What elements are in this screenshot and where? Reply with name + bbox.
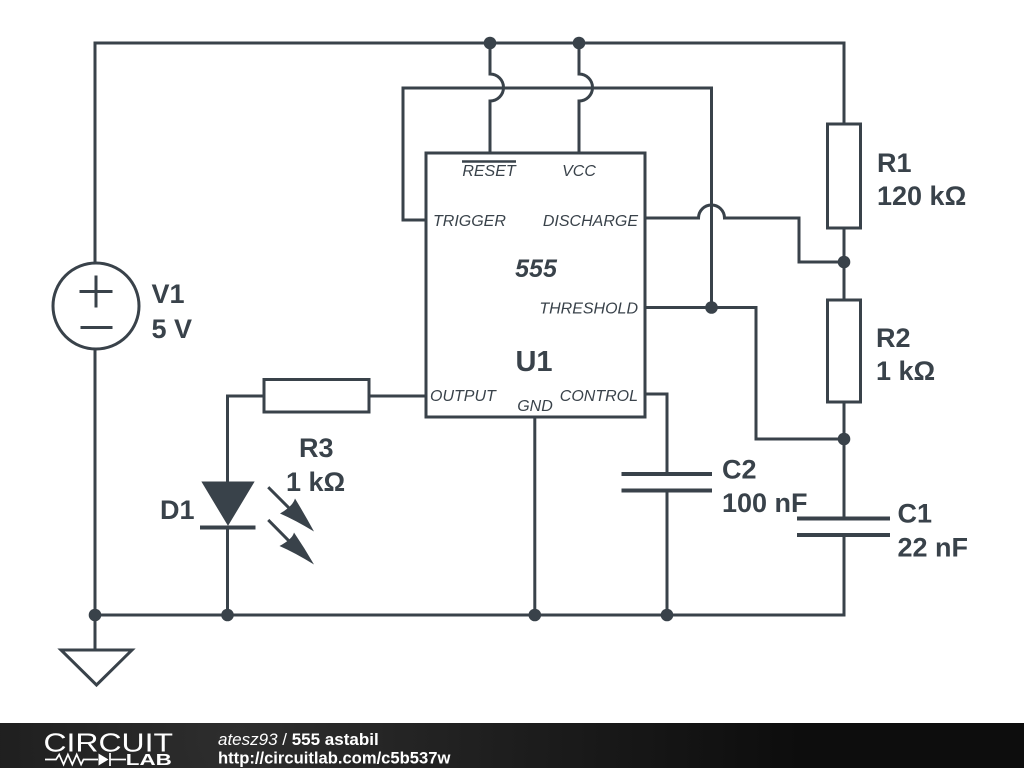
svg-text:VCC: VCC — [562, 163, 596, 180]
label C1 22nF — [898, 499, 969, 563]
resistor R1 — [828, 124, 861, 228]
wire RESET drop with hop over trigger wire — [490, 43, 504, 153]
pin label GND — [517, 398, 553, 415]
pin label OUTPUT — [430, 388, 497, 405]
svg-text:C1: C1 — [898, 499, 933, 529]
svg-text:OUTPUT: OUTPUT — [430, 388, 497, 405]
node rail / C2 — [661, 609, 674, 622]
logo zigzag and diode — [45, 753, 126, 766]
wire R2 bottom lead — [843, 402, 846, 439]
label R2 1k — [876, 323, 935, 386]
label V1 5V — [152, 279, 193, 344]
svg-text:R1: R1 — [877, 148, 912, 178]
svg-text:THRESHOLD: THRESHOLD — [539, 301, 638, 318]
svg-text:http://circuitlab.com/c5b537w: http://circuitlab.com/c5b537w — [218, 749, 450, 768]
pin label VCC — [562, 163, 596, 180]
logo LAB — [126, 752, 172, 768]
svg-text:DISCHARGE: DISCHARGE — [543, 213, 638, 230]
wire THRESHOLD to R2/C1 node — [645, 308, 844, 440]
label R3 1k — [286, 433, 345, 497]
footer title atesz93 / 555 astabil — [218, 730, 379, 749]
resistor R3 — [264, 380, 369, 413]
svg-text:22 nF: 22 nF — [898, 533, 969, 563]
value label 555 — [515, 255, 558, 283]
wire bottom rail — [95, 614, 844, 617]
pin label CONTROL — [560, 388, 638, 405]
label D1 — [160, 495, 195, 525]
wire V1 bottom lead — [94, 350, 97, 615]
wire DISCHARGE to R1/R2 node with hop — [645, 205, 844, 262]
wire OUTPUT to R3 — [369, 395, 426, 398]
node junction R1/R2/discharge — [838, 256, 851, 269]
pin label DISCHARGE — [543, 213, 638, 230]
IC U1 555 timer box — [426, 153, 645, 417]
wire GND pin to rail — [533, 417, 536, 615]
node junction R2/C1/threshold — [838, 433, 851, 446]
logo CIRCUIT — [44, 728, 174, 758]
node rail / V1 — [89, 609, 102, 622]
svg-text:RESET: RESET — [462, 163, 517, 180]
footer bar — [0, 723, 1024, 768]
wire R1 bottom lead — [843, 228, 846, 262]
svg-text:D1: D1 — [160, 495, 195, 525]
svg-text:100 nF: 100 nF — [722, 488, 808, 518]
label C2 100nF — [722, 455, 808, 519]
LED emission arrow 1 — [269, 488, 314, 531]
svg-text:R3: R3 — [299, 433, 334, 463]
svg-text:LAB: LAB — [126, 752, 172, 768]
svg-text:R2: R2 — [876, 323, 911, 353]
svg-text:555: 555 — [515, 255, 558, 283]
wire TRIGGER to THRESHOLD net — [403, 88, 712, 308]
wire CONTROL to C2 — [645, 394, 667, 474]
label R1 120k — [877, 148, 966, 211]
pin label RESET with overline — [462, 162, 517, 181]
svg-text:1 kΩ: 1 kΩ — [876, 356, 935, 386]
resistor R2 — [828, 300, 861, 402]
capacitor C2 — [624, 474, 711, 615]
wire top rail from V1 to R1 — [95, 43, 844, 262]
svg-text:TRIGGER: TRIGGER — [433, 213, 506, 230]
designator label U1 — [515, 346, 552, 378]
footer url — [218, 749, 450, 768]
svg-text:U1: U1 — [515, 346, 552, 378]
voltage source V1 — [53, 263, 139, 349]
node rail / D1 — [221, 609, 234, 622]
diode D1 LED — [202, 483, 254, 615]
svg-text:C2: C2 — [722, 455, 757, 485]
wire VCC drop with hop over trigger wire — [579, 43, 593, 153]
pin label TRIGGER — [433, 213, 506, 230]
node junction THRESHOLD / trigger drop — [705, 301, 718, 314]
svg-text:5 V: 5 V — [152, 314, 193, 344]
node junction top rail / RESET drop — [484, 37, 497, 50]
node junction top rail / VCC drop — [573, 37, 586, 50]
svg-text:120 kΩ: 120 kΩ — [877, 181, 966, 211]
capacitor C1 — [799, 439, 888, 615]
wire R2 top lead — [843, 262, 846, 300]
wire R3 to D1 — [228, 396, 265, 484]
svg-text:atesz93 / 555 astabil: atesz93 / 555 astabil — [218, 730, 379, 749]
LED emission arrow 2 — [269, 521, 314, 565]
pin label THRESHOLD — [539, 301, 638, 318]
svg-text:CONTROL: CONTROL — [560, 388, 638, 405]
svg-text:GND: GND — [517, 398, 553, 415]
ground — [61, 615, 132, 685]
svg-text:V1: V1 — [152, 279, 185, 309]
svg-text:1 kΩ: 1 kΩ — [286, 467, 345, 497]
node rail / GND pin — [529, 609, 542, 622]
